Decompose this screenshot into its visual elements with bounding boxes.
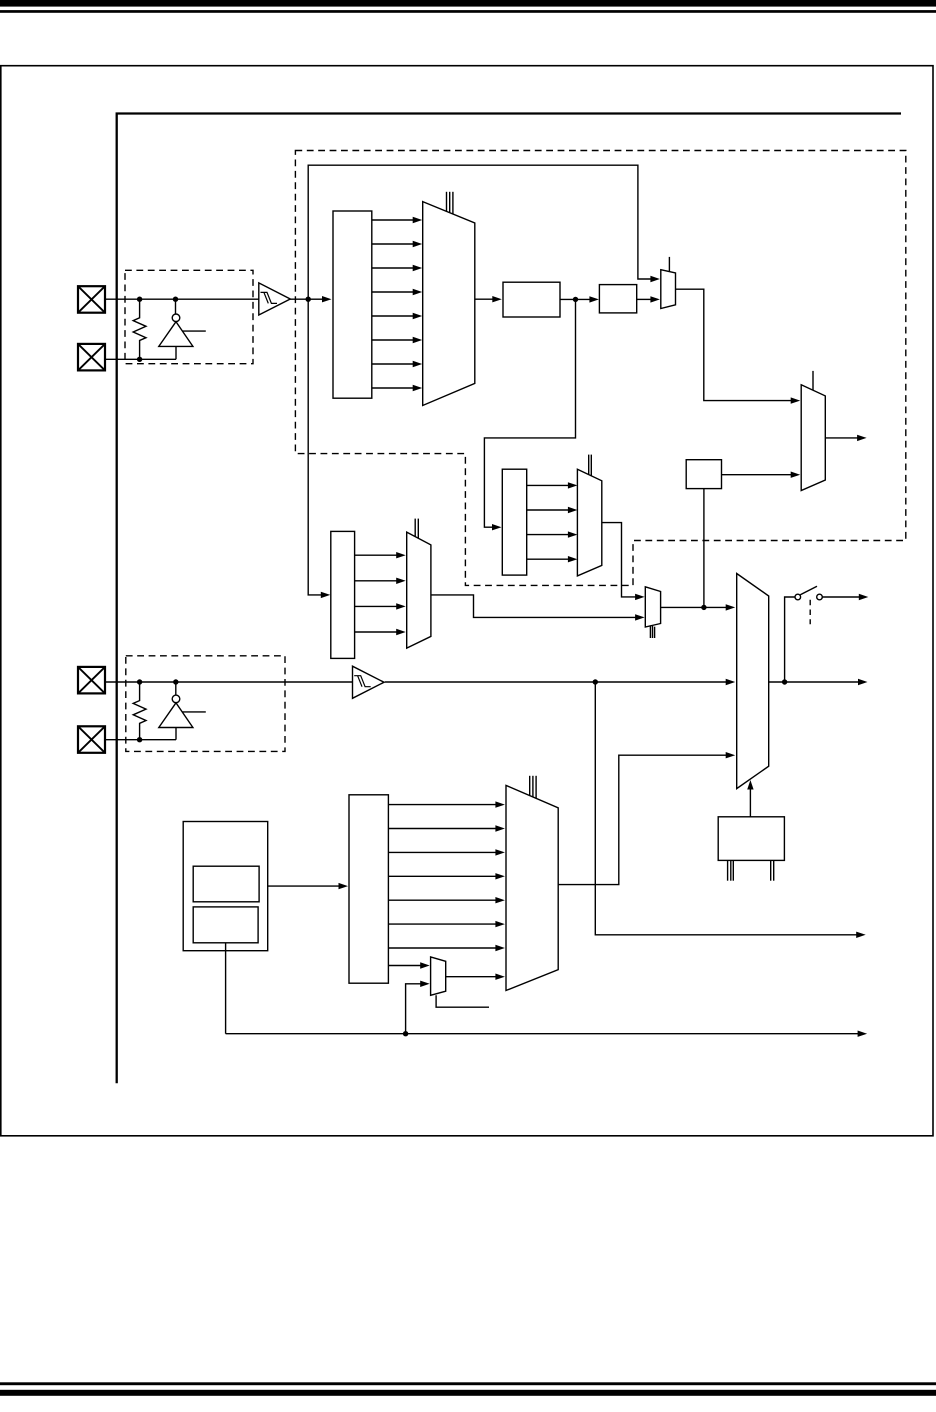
select line MUX3 bbox=[812, 371, 814, 390]
junction bbox=[173, 679, 178, 684]
wire T1 clock to MUX5 input bbox=[385, 679, 736, 685]
mux MUX5m bbox=[577, 469, 601, 576]
block B4 bbox=[686, 460, 721, 489]
node F junction bbox=[403, 1031, 408, 1036]
wire T1OSI to Schmitt input bbox=[105, 681, 352, 683]
dashed box: OSC1/OSC2 crystal circuit bbox=[125, 270, 253, 363]
wire MUX5 output bbox=[769, 679, 868, 685]
block B7 bbox=[183, 822, 268, 951]
wires B8 to MUX6 (7 taps) bbox=[388, 801, 505, 951]
wire B7 bottom tap bbox=[225, 943, 227, 1034]
wire node D to switch bbox=[785, 597, 795, 682]
wire MUX1 to block B2 bbox=[475, 296, 502, 302]
block B1 bbox=[333, 211, 372, 398]
junction bbox=[137, 297, 142, 302]
inverter U3 bbox=[159, 682, 206, 740]
block B5m bbox=[502, 469, 526, 575]
block B2 bbox=[503, 282, 560, 317]
wire node F to MUX7 bottom input bbox=[406, 981, 430, 1034]
wire B2 to B3 bbox=[560, 296, 599, 302]
wire MUX7 to MUX6 bbox=[446, 974, 505, 980]
wires B1 to MUX1 (8 taps) bbox=[372, 217, 422, 391]
dashed switch control link bbox=[809, 600, 811, 624]
wires B5m to MUX5m (4 taps) bbox=[527, 482, 578, 562]
mux MUX6 bbox=[506, 785, 558, 990]
wire MUX4 to MUX5 bbox=[661, 604, 736, 610]
wire MUX3 output bbox=[825, 435, 866, 441]
select line MUX2 bbox=[668, 257, 670, 272]
junction bbox=[137, 737, 142, 742]
wire node E to output bbox=[595, 682, 865, 938]
pad T1OSI bbox=[78, 667, 105, 694]
wire switch output bbox=[822, 594, 868, 600]
mux MUX4 bbox=[645, 587, 660, 627]
wire B7 to B8 bbox=[268, 883, 348, 889]
wire MUX5m to MUX4 top input bbox=[602, 523, 645, 601]
switch SW1 bbox=[795, 586, 822, 600]
wire node A down to block B5 input bbox=[308, 299, 330, 598]
wire B8 to MUX7 top input bbox=[388, 962, 429, 968]
wire bottom output bbox=[226, 1031, 868, 1037]
mux MUX5 bbox=[737, 574, 769, 789]
select line MUX7 bbox=[436, 995, 489, 1007]
pad T1OSO bbox=[78, 726, 105, 753]
select lines MUX5m bbox=[588, 455, 590, 475]
block B5 bbox=[331, 531, 355, 658]
sub-block B7b bbox=[193, 907, 258, 943]
dashed box: T1OSI/T1OSO crystal circuit bbox=[126, 656, 285, 752]
select lines MUX4L bbox=[414, 519, 416, 537]
wire B4 tap from node C bbox=[703, 489, 705, 608]
wire MUX4L to MUX4 bottom input bbox=[431, 595, 645, 621]
wire OSC1 to Schmitt input bbox=[105, 298, 259, 300]
node A junction bbox=[306, 297, 311, 302]
node E junction bbox=[593, 679, 598, 684]
pad OSC2 bbox=[78, 344, 105, 371]
junction bbox=[137, 679, 142, 684]
block B8 bbox=[349, 795, 388, 983]
wire internal bus bbox=[117, 114, 901, 1084]
node C junction bbox=[701, 605, 706, 610]
wire OSC2 to inverter output bbox=[105, 358, 176, 360]
wire B6 select to MUX5 bbox=[747, 780, 753, 817]
node B junction bbox=[573, 297, 578, 302]
wire node A feedback to MUX2 top input bbox=[308, 165, 660, 299]
select lines MUX1 bbox=[446, 192, 448, 212]
wire MUX6 to MUX5 third input bbox=[558, 752, 735, 885]
junction bbox=[173, 297, 178, 302]
sub-block B7a bbox=[193, 866, 259, 902]
wires B5 to MUX4L (4 taps) bbox=[355, 552, 406, 635]
node D junction bbox=[782, 679, 787, 684]
junction bbox=[137, 357, 142, 362]
wire node A to block B1 input bbox=[308, 296, 331, 302]
wire B3 to MUX2 bbox=[637, 296, 660, 302]
schmitt buffer U4 bbox=[353, 666, 385, 698]
inverter U1 bbox=[159, 299, 206, 359]
mux MUX1 bbox=[423, 202, 475, 406]
mux MUX2 bbox=[661, 270, 676, 309]
wire B4 to MUX3 bottom input bbox=[722, 472, 801, 478]
mux MUX3 bbox=[801, 385, 825, 491]
pad OSC1 bbox=[78, 286, 105, 313]
block B3 bbox=[599, 285, 636, 313]
wire node B to block B5m input bbox=[484, 299, 575, 530]
mux MUX4L bbox=[407, 532, 431, 648]
wire Schmitt output to node bbox=[290, 298, 309, 300]
wire T1OSO to inverter output bbox=[105, 739, 176, 741]
dashed box: primary oscillator region bbox=[295, 151, 905, 586]
pins of B6 bbox=[727, 860, 729, 880]
resistor Rf1 bbox=[133, 299, 146, 359]
wire MUX2 to MUX3 top input bbox=[676, 289, 801, 404]
resistor Rf2 bbox=[133, 682, 146, 740]
select lines MUX6 bbox=[529, 776, 531, 796]
block B6 bbox=[718, 817, 784, 861]
schmitt buffer U2 bbox=[259, 283, 291, 315]
select lines MUX4 bbox=[649, 625, 651, 638]
mux MUX7 bbox=[431, 957, 446, 995]
